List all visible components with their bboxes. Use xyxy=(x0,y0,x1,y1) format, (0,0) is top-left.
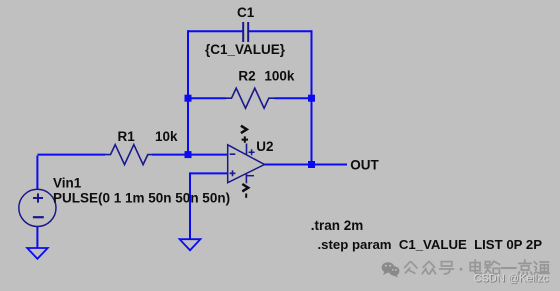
label 10k xyxy=(155,129,178,144)
wire top-right horizontal (C1 right lead) xyxy=(248,30,312,32)
label {C1_VALUE} xyxy=(205,42,286,57)
label 100k xyxy=(264,69,295,84)
ground (below Vin1) xyxy=(27,248,48,259)
wire op-amp noninverting input horizontal xyxy=(190,172,228,174)
resistor R2 xyxy=(226,88,275,108)
svg-text:10k: 10k xyxy=(155,129,178,144)
wire R1 to op-amp inverting input xyxy=(152,154,228,156)
label R1 xyxy=(118,129,136,144)
wire left feedback vertical xyxy=(187,30,189,154)
op-amp U2 xyxy=(228,126,265,198)
wire Vin1 bottom vertical to ground xyxy=(36,226,38,248)
junction at R2 left / feedback node xyxy=(185,95,192,102)
wire op-amp output to OUT xyxy=(265,164,348,166)
wire R2 right xyxy=(275,97,312,99)
resistor R1 xyxy=(105,145,152,165)
wire R2 left xyxy=(188,97,226,99)
wire right feedback vertical xyxy=(311,30,313,164)
voltage source Vin1 xyxy=(19,189,56,226)
junction at inverting input node xyxy=(185,151,192,158)
junction at R2 right xyxy=(308,95,315,102)
svg-text:U2: U2 xyxy=(256,139,273,154)
svg-text:CSDN @Keilzc: CSDN @Keilzc xyxy=(474,272,549,284)
watermark CSDN @Keilzc xyxy=(474,272,550,285)
node OUT xyxy=(350,158,379,173)
label PULSE(0 1 1m 50n 50n 50n) xyxy=(53,190,230,205)
watermark text: 公众号·电路一点通 (drawn glyph approximations) xyxy=(405,260,550,275)
spice directive .tran 2m xyxy=(311,218,364,233)
label U2 xyxy=(256,139,273,154)
ground (below op-amp noninverting input) xyxy=(180,239,201,250)
svg-text:C1: C1 xyxy=(237,5,255,20)
label R2 xyxy=(238,69,255,84)
svg-text:R1: R1 xyxy=(118,129,136,144)
svg-text:.step param C1_VALUE LIST 0P: .step param C1_VALUE LIST 0P 2P xyxy=(318,237,543,252)
spice directive .step param C1_VALUE LIST 0P 2P xyxy=(318,237,543,252)
wire Vin1 top vertical xyxy=(36,156,38,190)
svg-text:.tran 2m: .tran 2m xyxy=(311,218,364,233)
svg-text:{C1_VALUE}: {C1_VALUE} xyxy=(205,42,286,57)
svg-text:R2: R2 xyxy=(238,69,255,84)
svg-text:OUT: OUT xyxy=(350,158,379,173)
wire noninverting input vertical to ground xyxy=(189,172,191,239)
watermark wechat icon xyxy=(382,262,400,277)
wire top-left horizontal (C1 left lead) xyxy=(188,30,243,32)
svg-text:100k: 100k xyxy=(264,69,295,84)
capacitor C1 xyxy=(243,22,248,42)
label C1 xyxy=(237,5,255,20)
svg-text:Vin1: Vin1 xyxy=(53,175,82,190)
svg-text:PULSE(0 1 1m 50n 50n 50n): PULSE(0 1 1m 50n 50n 50n) xyxy=(53,190,230,205)
junction at output node xyxy=(308,161,315,168)
wire Vin1 top to R1 xyxy=(37,154,105,156)
label Vin1 xyxy=(53,175,82,190)
